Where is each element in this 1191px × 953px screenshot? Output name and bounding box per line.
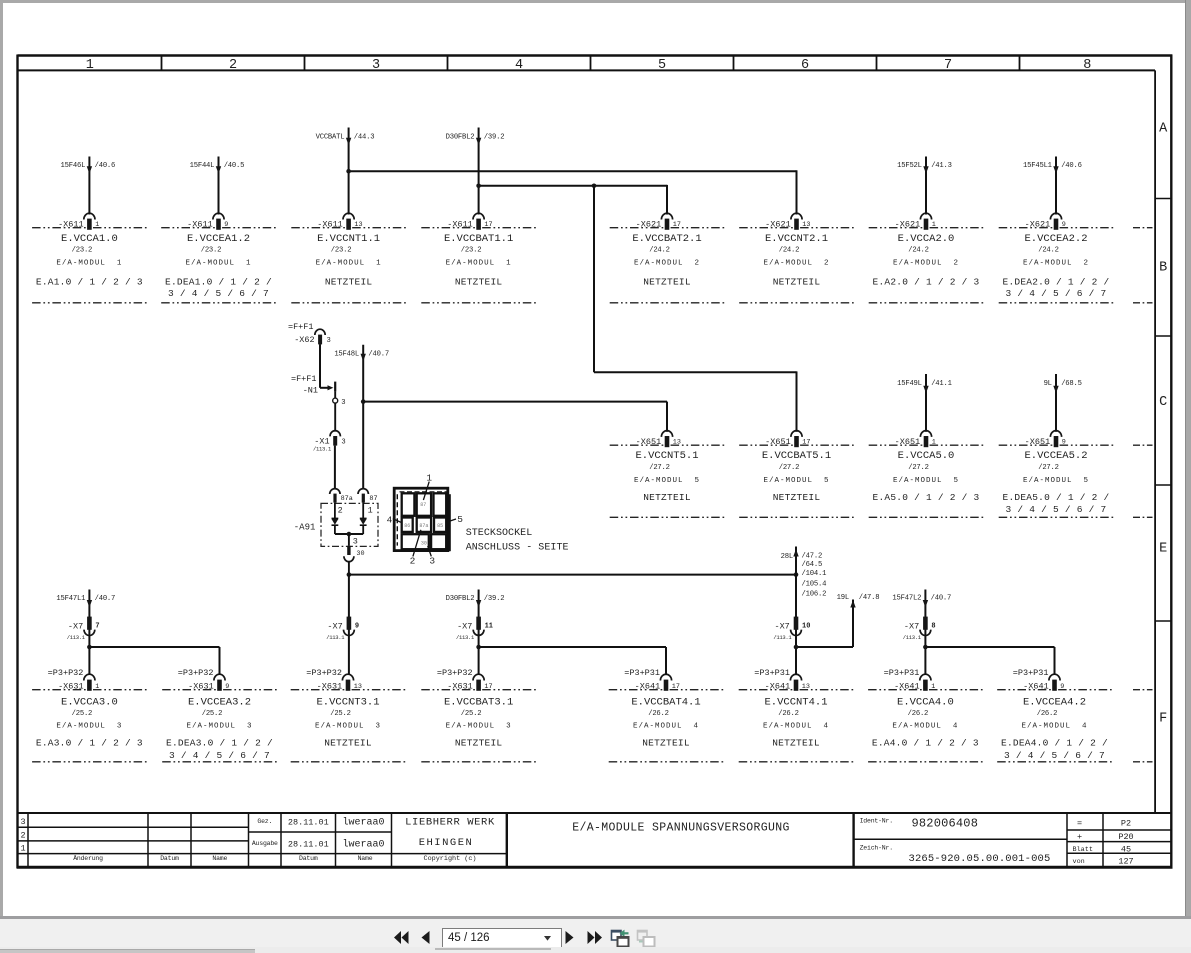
svg-text:/40.5: /40.5 — [224, 162, 245, 170]
svg-text:NETZTEIL: NETZTEIL — [773, 277, 821, 288]
svg-text:E.DEA4.0 / 1 / 2 /: E.DEA4.0 / 1 / 2 / — [1001, 738, 1108, 749]
svg-text:1: 1 — [931, 683, 935, 691]
svg-text:Name: Name — [212, 855, 227, 862]
wire -A91 output pin 3/30 — [335, 532, 365, 562]
wire D30FBL2 /39.2 (bottom) — [446, 590, 505, 676]
svg-text:ANSCHLUSS - SEITE: ANSCHLUSS - SEITE — [466, 543, 569, 554]
svg-text:/24.2: /24.2 — [649, 247, 670, 255]
window chrome right strip — [1185, 0, 1191, 917]
svg-text:E.VCCNT4.1: E.VCCNT4.1 — [764, 696, 827, 708]
svg-text:=P3+P31: =P3+P31 — [624, 668, 660, 678]
svg-text:-X7: -X7 — [327, 621, 342, 631]
svg-text:E/A-MODUL 5: E/A-MODUL 5 — [763, 477, 829, 485]
svg-text:15F49L: 15F49L — [897, 380, 922, 388]
svg-text:Datum: Datum — [160, 855, 179, 862]
svg-text:17: 17 — [484, 221, 492, 229]
svg-text:E/A-MODUL 3: E/A-MODUL 3 — [186, 722, 252, 730]
svg-text:3 / 4 / 5 / 6 / 7: 3 / 4 / 5 / 6 / 7 — [1006, 504, 1107, 515]
connector -X651 pin 13 (E.VCCNT5.1) — [610, 431, 725, 518]
wire -X1:3 to -A91:2 — [334, 446, 336, 490]
svg-text:-X611: -X611 — [317, 219, 343, 229]
svg-text:87a: 87a — [419, 523, 428, 529]
svg-text:15F45L1: 15F45L1 — [1023, 162, 1052, 170]
svg-text:=F+F1: =F+F1 — [291, 374, 317, 384]
svg-text:3: 3 — [327, 337, 331, 345]
wire branch to -X651:17 — [592, 184, 797, 432]
svg-text:E/A-MODUL 5: E/A-MODUL 5 — [893, 477, 959, 485]
svg-text:-X631: -X631 — [447, 681, 473, 691]
title block texts — [21, 816, 1134, 866]
connector -X631 pin 1 (E.VCCA3.0) — [32, 668, 147, 762]
button first/prev-double — [393, 931, 410, 944]
title block grid — [17, 813, 1173, 867]
svg-text:/113.1: /113.1 — [456, 634, 475, 641]
diode V2 in -A91 right branch — [360, 503, 367, 534]
svg-text:-X631: -X631 — [317, 681, 343, 691]
svg-text:/39.2: /39.2 — [484, 133, 505, 141]
wire bus A91/28L (horizontal) — [347, 572, 799, 577]
svg-text:3: 3 — [341, 439, 345, 447]
svg-text:/104.1: /104.1 — [802, 570, 827, 578]
svg-text:E/A-MODUL 1: E/A-MODUL 1 — [316, 260, 382, 268]
svg-text:/105.4: /105.4 — [802, 580, 827, 588]
svg-text:NETZTEIL: NETZTEIL — [772, 738, 820, 749]
svg-text:E.VCCBAT1.1: E.VCCBAT1.1 — [444, 233, 513, 245]
svg-text:/39.2: /39.2 — [484, 595, 505, 603]
svg-text:9: 9 — [225, 683, 229, 691]
svg-text:D30FBL2: D30FBL2 — [446, 595, 475, 603]
wire 15F47L2 /40.7 — [892, 590, 951, 676]
svg-text:1: 1 — [95, 683, 99, 691]
svg-text:E/A-MODUL 2: E/A-MODUL 2 — [1023, 260, 1089, 268]
svg-text:/26.2: /26.2 — [778, 710, 799, 718]
svg-text:1: 1 — [932, 221, 936, 229]
svg-text:982006408: 982006408 — [912, 817, 979, 831]
svg-text:=F+F1: =F+F1 — [288, 322, 314, 332]
wire 28L with cross references — [781, 547, 827, 676]
svg-text:3 / 4 / 5 / 6 / 7: 3 / 4 / 5 / 6 / 7 — [1004, 750, 1105, 761]
connector -X651 pin 1 (E.VCCA5.0) — [869, 431, 984, 518]
connector -X621 pin 1 (E.VCCA2.0) — [869, 213, 984, 303]
svg-text:-N1: -N1 — [303, 386, 318, 396]
svg-text:/40.7: /40.7 — [95, 595, 116, 603]
wire 15F44L /40.5 — [190, 157, 245, 215]
svg-text:+: + — [1077, 832, 1082, 842]
wire 15F49L /41.1 — [897, 374, 952, 432]
svg-text:127: 127 — [1118, 857, 1133, 867]
svg-text:E.VCCBAT2.1: E.VCCBAT2.1 — [632, 233, 701, 245]
svg-text:/40.6: /40.6 — [1061, 162, 1082, 170]
svg-text:-X611: -X611 — [187, 219, 213, 229]
svg-text:E.VCCBAT3.1: E.VCCBAT3.1 — [444, 696, 513, 708]
wire 15F52L /41.3 — [897, 157, 952, 215]
wire node3 bus to -X651:13 — [361, 399, 667, 431]
dash-dot continuation stubs right edge — [1133, 228, 1153, 762]
wire 15F48L /40.7 — [334, 345, 389, 489]
svg-text:E.VCCA2.0: E.VCCA2.0 — [898, 233, 955, 245]
svg-text:11: 11 — [485, 623, 493, 631]
connector -X1 pin 3 /113.1 — [313, 403, 346, 452]
svg-text:Änderung: Änderung — [73, 854, 103, 862]
svg-text:/64.5: /64.5 — [802, 561, 823, 569]
svg-text:E.VCCEA3.2: E.VCCEA3.2 — [188, 696, 251, 708]
svg-text:/25.2: /25.2 — [72, 710, 93, 718]
svg-text:B: B — [1159, 261, 1167, 276]
svg-text:E/A-MODUL 3: E/A-MODUL 3 — [56, 722, 122, 730]
wire -X7:11 branch to -X641:17 — [476, 645, 666, 675]
svg-text:/27.2: /27.2 — [779, 464, 800, 472]
svg-text:1: 1 — [368, 506, 373, 516]
connector -X7 pin 9 — [326, 617, 359, 641]
socket layout STECKSOCKEL — [387, 473, 464, 567]
svg-text:-X641: -X641 — [894, 681, 920, 691]
svg-text:-X621: -X621 — [1025, 219, 1051, 229]
wire -A91 output through -X7:9 — [348, 575, 350, 675]
svg-text:E/A-MODUL 5: E/A-MODUL 5 — [1023, 477, 1089, 485]
wire 15F46L /40.6 — [61, 157, 116, 215]
svg-text:4: 4 — [387, 515, 393, 526]
svg-text:A: A — [1159, 122, 1168, 137]
svg-text:13: 13 — [802, 221, 810, 229]
wire -X7:8 branch to -X641:9 — [923, 645, 1054, 675]
svg-text:/106.2: /106.2 — [802, 590, 827, 598]
svg-text:86: 86 — [404, 523, 410, 529]
svg-text:2: 2 — [410, 556, 416, 567]
svg-text:Ident-Nr.: Ident-Nr. — [860, 818, 893, 825]
label STECKSOCKEL ANSCHLUSS - SEITE — [466, 528, 569, 554]
svg-text:Copyright (c): Copyright (c) — [423, 855, 476, 863]
svg-text:Zeich-Nr.: Zeich-Nr. — [860, 845, 893, 852]
svg-text:-X611: -X611 — [447, 219, 473, 229]
connector -A91 pin 87 — [358, 489, 378, 516]
svg-text:E.A2.0 / 1 / 2 / 3: E.A2.0 / 1 / 2 / 3 — [873, 277, 980, 288]
svg-text:-X631: -X631 — [58, 681, 84, 691]
svg-text:P20: P20 — [1118, 832, 1133, 842]
svg-text:/40.7: /40.7 — [931, 595, 952, 603]
wire bus D30FBL2 to -X621:17 — [476, 184, 667, 215]
svg-text:P2: P2 — [1121, 819, 1131, 829]
svg-text:3 / 4 / 5 / 6 / 7: 3 / 4 / 5 / 6 / 7 — [1006, 288, 1107, 299]
svg-text:LIEBHERR WERK: LIEBHERR WERK — [405, 817, 495, 829]
svg-text:7: 7 — [944, 58, 952, 73]
svg-text:-X7: -X7 — [774, 621, 789, 631]
svg-text:NETZTEIL: NETZTEIL — [324, 738, 372, 749]
svg-text:von: von — [1073, 858, 1085, 866]
svg-text:E/A-MODUL 1: E/A-MODUL 1 — [185, 260, 251, 268]
svg-text:=P3+P32: =P3+P32 — [178, 668, 214, 678]
svg-text:/47.8: /47.8 — [859, 594, 880, 602]
svg-text:5: 5 — [457, 514, 463, 525]
svg-text:Gez.: Gez. — [257, 818, 272, 825]
svg-text:NETZTEIL: NETZTEIL — [773, 492, 821, 503]
connector -X611 pin 9 (E.VCCEA1.2) — [161, 213, 276, 303]
svg-text:=P3+P31: =P3+P31 — [1013, 668, 1049, 678]
svg-text:15F52L: 15F52L — [897, 162, 922, 170]
relay -A91 (dash-dot enclosure) — [294, 503, 378, 546]
wire bus VCCBATL to -X621:13 — [346, 169, 796, 215]
connector -X621 pin 17 (E.VCCBAT2.1) — [610, 213, 725, 303]
button last/next-double — [586, 931, 603, 944]
bottom edge strip — [0, 947, 1191, 953]
svg-text:-X641: -X641 — [1023, 681, 1049, 691]
svg-text:-X621: -X621 — [895, 219, 921, 229]
svg-text:9: 9 — [1062, 438, 1066, 446]
svg-text:8: 8 — [931, 623, 935, 631]
svg-text:E.VCCEA1.2: E.VCCEA1.2 — [187, 233, 250, 245]
svg-text:E.VCCBAT4.1: E.VCCBAT4.1 — [631, 696, 700, 708]
svg-text:C: C — [1159, 395, 1167, 410]
connector -X7 pin 7 — [67, 617, 100, 641]
wire 9L /68.5 — [1044, 374, 1082, 432]
svg-text:Datum: Datum — [299, 855, 318, 862]
svg-text:E.VCCEA5.2: E.VCCEA5.2 — [1024, 450, 1087, 462]
wire 15F47L1 /40.7 — [56, 590, 115, 676]
svg-text:E/A-MODUL 1: E/A-MODUL 1 — [56, 260, 122, 268]
svg-text:15F44L: 15F44L — [190, 162, 215, 170]
svg-text:1: 1 — [86, 58, 94, 73]
svg-text:E.VCCNT5.1: E.VCCNT5.1 — [635, 450, 698, 462]
connector -X651 pin 17 (E.VCCBAT5.1) — [739, 431, 854, 518]
svg-text:/113.1: /113.1 — [773, 634, 792, 641]
svg-text:E.DEA3.0 / 1 / 2 /: E.DEA3.0 / 1 / 2 / — [166, 738, 273, 749]
svg-text:-X7: -X7 — [68, 621, 83, 631]
svg-text:E.DEA1.0 / 1 / 2 /: E.DEA1.0 / 1 / 2 / — [165, 277, 272, 288]
page number combobox 45 / 126 — [442, 928, 562, 949]
svg-text:NETZTEIL: NETZTEIL — [643, 277, 691, 288]
svg-text:lweraa0: lweraa0 — [342, 816, 384, 828]
svg-text:30: 30 — [356, 550, 364, 558]
svg-text:E.DEA2.0 / 1 / 2 /: E.DEA2.0 / 1 / 2 / — [1003, 277, 1110, 288]
svg-text:NETZTEIL: NETZTEIL — [642, 738, 690, 749]
svg-text:4: 4 — [515, 58, 523, 73]
svg-text:NETZTEIL: NETZTEIL — [455, 277, 503, 288]
svg-text:13: 13 — [802, 683, 810, 691]
svg-text:/47.2: /47.2 — [802, 553, 823, 561]
svg-text:/113.1: /113.1 — [313, 446, 332, 453]
wire -A91:30 down to bus — [348, 561, 350, 575]
svg-text:/25.2: /25.2 — [330, 710, 351, 718]
connector -A91 pin 87a — [330, 489, 353, 516]
svg-text:STECKSOCKEL: STECKSOCKEL — [466, 528, 533, 539]
svg-text:-X651: -X651 — [1025, 437, 1051, 447]
window chrome top bar — [0, 0, 1191, 3]
button next view (disabled) — [636, 928, 656, 948]
svg-text:E.VCCA5.0: E.VCCA5.0 — [898, 450, 955, 462]
svg-text:-X7: -X7 — [457, 621, 472, 631]
svg-text:7: 7 — [95, 623, 99, 631]
node 3 — [333, 391, 346, 407]
svg-text:9: 9 — [1062, 221, 1066, 229]
svg-text:F: F — [1159, 712, 1167, 727]
svg-text:1: 1 — [426, 473, 432, 484]
svg-text:E/A-MODUL 1: E/A-MODUL 1 — [446, 260, 512, 268]
svg-text:9L: 9L — [1044, 380, 1052, 388]
svg-text:3: 3 — [429, 556, 435, 567]
diode V1 in -A91 left branch — [332, 503, 339, 534]
svg-text:15F47L2: 15F47L2 — [892, 595, 921, 603]
svg-text:E.VCCEA2.2: E.VCCEA2.2 — [1024, 233, 1087, 245]
svg-text:2: 2 — [338, 506, 343, 516]
svg-text:E.DEA5.0 / 1 / 2 /: E.DEA5.0 / 1 / 2 / — [1003, 492, 1110, 503]
svg-text:/26.2: /26.2 — [1037, 710, 1058, 718]
svg-text:E.A1.0 / 1 / 2 / 3: E.A1.0 / 1 / 2 / 3 — [36, 277, 143, 288]
connector -X62 pin 3 =F+F1 — [288, 322, 331, 345]
svg-text:13: 13 — [354, 683, 362, 691]
svg-text:/24.2: /24.2 — [908, 247, 929, 255]
svg-text:17: 17 — [484, 683, 492, 691]
connector -X631 pin 13 (E.VCCNT3.1) — [291, 668, 406, 762]
svg-text:28.11.01: 28.11.01 — [288, 839, 329, 849]
svg-text:E.VCCEA4.2: E.VCCEA4.2 — [1023, 696, 1086, 708]
svg-text:30: 30 — [421, 540, 427, 546]
connector -X631 pin 17 (E.VCCBAT3.1) — [421, 668, 536, 762]
svg-text:/26.2: /26.2 — [908, 710, 929, 718]
svg-text:-X7: -X7 — [904, 621, 919, 631]
connector -X7 pin 10 — [773, 617, 810, 641]
svg-text:/23.2: /23.2 — [72, 247, 93, 255]
svg-text:/23.2: /23.2 — [201, 247, 222, 255]
window chrome left strip — [0, 0, 3, 917]
svg-text:/44.3: /44.3 — [354, 133, 375, 141]
column header band — [86, 56, 1092, 73]
svg-text:E/A-MODUL 3: E/A-MODUL 3 — [315, 722, 381, 730]
svg-text:17: 17 — [673, 221, 681, 229]
svg-text:NETZTEIL: NETZTEIL — [325, 277, 373, 288]
svg-text:-X651: -X651 — [636, 437, 662, 447]
svg-text:13: 13 — [354, 221, 362, 229]
svg-text:87a: 87a — [341, 495, 353, 503]
svg-text:28L: 28L — [781, 553, 793, 561]
svg-text:3: 3 — [341, 399, 345, 407]
svg-text:/27.2: /27.2 — [908, 464, 929, 472]
button previous page — [421, 931, 430, 944]
svg-text:17: 17 — [802, 438, 810, 446]
wire 15F45L1 /40.6 — [1023, 157, 1082, 215]
svg-text:E.VCCBAT5.1: E.VCCBAT5.1 — [762, 450, 831, 462]
connector -X611 pin 13 (E.VCCNT1.1) — [291, 213, 406, 303]
wire D30FBL2 /39.2 — [446, 128, 505, 215]
connector -X611 pin 17 (E.VCCBAT1.1) — [421, 213, 536, 303]
wire -X62:3 to -N1 — [320, 344, 333, 390]
connector -X621 pin 9 (E.VCCEA2.2) — [999, 213, 1114, 303]
svg-text:E.VCCA4.0: E.VCCA4.0 — [897, 696, 954, 708]
svg-text:=P3+P32: =P3+P32 — [437, 668, 473, 678]
svg-text:/26.2: /26.2 — [648, 710, 669, 718]
svg-text:/25.2: /25.2 — [461, 710, 482, 718]
svg-text:E.VCCNT1.1: E.VCCNT1.1 — [317, 233, 380, 245]
svg-text:E.A3.0 / 1 / 2 / 3: E.A3.0 / 1 / 2 / 3 — [36, 738, 143, 749]
connector -X641 pin 1 (E.VCCA4.0) — [868, 668, 983, 762]
wire VCCBATL /44.3 — [316, 128, 375, 215]
svg-text:2: 2 — [21, 831, 26, 841]
svg-text:E/A-MODUL 4: E/A-MODUL 4 — [1021, 722, 1087, 730]
svg-text:15F46L: 15F46L — [61, 162, 86, 170]
svg-text:EHINGEN: EHINGEN — [419, 837, 474, 849]
connector -X631 pin 9 (E.VCCEA3.2) — [162, 668, 277, 762]
svg-text:=P3+P31: =P3+P31 — [754, 668, 790, 678]
svg-text:E.VCCA1.0: E.VCCA1.0 — [61, 233, 118, 245]
connector -X641 pin 9 (E.VCCEA4.2) — [997, 668, 1112, 762]
svg-text:/23.2: /23.2 — [331, 247, 352, 255]
wire -X7:7 branch to -X631:9 — [87, 645, 219, 675]
svg-text:-X641: -X641 — [635, 681, 661, 691]
svg-text:=: = — [1077, 819, 1082, 829]
svg-text:=P3+P31: =P3+P31 — [884, 668, 920, 678]
svg-text:5: 5 — [658, 58, 666, 73]
svg-text:1: 1 — [95, 221, 99, 229]
svg-text:E.A4.0 / 1 / 2 / 3: E.A4.0 / 1 / 2 / 3 — [872, 738, 979, 749]
svg-text:NETZTEIL: NETZTEIL — [455, 738, 503, 749]
svg-text:E.VCCNT2.1: E.VCCNT2.1 — [765, 233, 828, 245]
svg-text:/68.5: /68.5 — [1061, 380, 1082, 388]
connector -X621 pin 13 (E.VCCNT2.1) — [739, 213, 854, 303]
svg-text:VCCBATL: VCCBATL — [316, 133, 345, 141]
svg-text:10: 10 — [802, 623, 810, 631]
svg-text:87: 87 — [369, 495, 377, 503]
svg-text:17: 17 — [672, 683, 680, 691]
svg-text:15F48L: 15F48L — [334, 350, 359, 358]
terminal -N1 =F+F1 — [291, 374, 335, 396]
svg-text:Name: Name — [358, 855, 373, 862]
svg-text:D30FBL2: D30FBL2 — [446, 133, 475, 141]
svg-text:/41.3: /41.3 — [931, 162, 952, 170]
svg-text:/24.2: /24.2 — [779, 247, 800, 255]
svg-text:/113.1: /113.1 — [903, 634, 922, 641]
row letter band — [1155, 122, 1171, 727]
svg-text:3: 3 — [21, 817, 26, 827]
svg-text:-X621: -X621 — [636, 219, 662, 229]
svg-text:-X611: -X611 — [58, 219, 84, 229]
svg-text:=P3+P32: =P3+P32 — [48, 668, 84, 678]
svg-text:E/A-MODULE SPANNUNGSVERSORGUNG: E/A-MODULE SPANNUNGSVERSORGUNG — [572, 822, 790, 835]
svg-text:/27.2: /27.2 — [649, 464, 670, 472]
svg-text:-A91: -A91 — [294, 522, 316, 532]
svg-text:-X651: -X651 — [765, 437, 791, 447]
svg-text:/25.2: /25.2 — [202, 710, 223, 718]
svg-text:8: 8 — [1083, 58, 1091, 73]
connector -X7 pin 8 — [903, 617, 936, 641]
svg-text:45: 45 — [1121, 845, 1131, 855]
svg-text:3265-920.05.00.001-005: 3265-920.05.00.001-005 — [909, 853, 1051, 865]
svg-text:1: 1 — [21, 843, 26, 853]
svg-text:Blatt: Blatt — [1073, 846, 1093, 854]
svg-text:E.VCCA3.0: E.VCCA3.0 — [61, 696, 118, 708]
svg-text:9: 9 — [1060, 683, 1064, 691]
svg-text:-X651: -X651 — [895, 437, 921, 447]
svg-text:/24.2: /24.2 — [1038, 247, 1059, 255]
svg-text:-X641: -X641 — [765, 681, 791, 691]
svg-text:/27.2: /27.2 — [1038, 464, 1059, 472]
svg-text:E: E — [1159, 542, 1167, 557]
button previous view — [610, 928, 630, 948]
svg-text:87: 87 — [420, 502, 426, 508]
svg-text:19L: 19L — [837, 594, 849, 602]
connector -X641 pin 13 (E.VCCNT4.1) — [739, 668, 854, 762]
svg-text:-X631: -X631 — [188, 681, 214, 691]
svg-text:E/A-MODUL 3: E/A-MODUL 3 — [446, 722, 512, 730]
svg-text:E.VCCNT3.1: E.VCCNT3.1 — [316, 696, 379, 708]
svg-text:E/A-MODUL 4: E/A-MODUL 4 — [763, 722, 829, 730]
svg-text:3 / 4 / 5 / 6 / 7: 3 / 4 / 5 / 6 / 7 — [168, 288, 269, 299]
button next page — [565, 931, 574, 944]
svg-text:E/A-MODUL 2: E/A-MODUL 2 — [634, 260, 700, 268]
svg-text:13: 13 — [673, 438, 681, 446]
svg-text:E/A-MODUL 5: E/A-MODUL 5 — [634, 477, 700, 485]
svg-text:15F47L1: 15F47L1 — [56, 595, 85, 603]
svg-text:E/A-MODUL 2: E/A-MODUL 2 — [893, 260, 959, 268]
svg-text:1: 1 — [932, 438, 936, 446]
svg-text:E/A-MODUL 4: E/A-MODUL 4 — [892, 722, 958, 730]
